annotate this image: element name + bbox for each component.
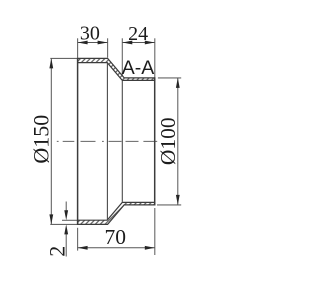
dimension line dia150 (50, 58, 52, 224)
extension line dia150 dia2 bottom outer (50, 223, 77, 225)
svg-text:2: 2 (45, 246, 70, 257)
svg-text:A-A: A-A (122, 57, 155, 79)
top wall section (hatched) (78, 58, 155, 80)
right end face edge (154, 77, 156, 205)
dimension line 30 (78, 42, 108, 44)
extension line dim2 inner (62, 219, 78, 221)
extension line dim24 left (121, 38, 123, 75)
extension line dim24 right (154, 38, 156, 77)
bottom wall section (hatched) (78, 202, 155, 224)
left end face edge (77, 58, 79, 225)
extension line dim70 right (154, 208, 156, 255)
extension line dim30 left (77, 38, 79, 57)
extension line dia100 bottom (157, 204, 181, 206)
extension line dia150 top (50, 57, 77, 59)
dimension line 2 lower leader (65, 230, 67, 257)
dimension line 24 (122, 42, 155, 44)
svg-text:24: 24 (128, 23, 148, 45)
dimension line dia100 (177, 78, 179, 205)
dimension line 70 (78, 247, 155, 249)
dimension line 2 upper leader (65, 202, 67, 215)
svg-text:Ø100: Ø100 (156, 117, 180, 165)
extension line dim70 left (77, 228, 79, 251)
extension line dim30 right (107, 38, 109, 57)
svg-text:30: 30 (80, 23, 100, 45)
svg-text:70: 70 (105, 225, 127, 249)
centerline (57, 140, 157, 142)
extension line dia100 top (158, 77, 181, 79)
svg-text:Ø150: Ø150 (28, 115, 53, 164)
inner transition edge large end (106, 63, 108, 219)
inner transition edge small end (121, 81, 123, 202)
